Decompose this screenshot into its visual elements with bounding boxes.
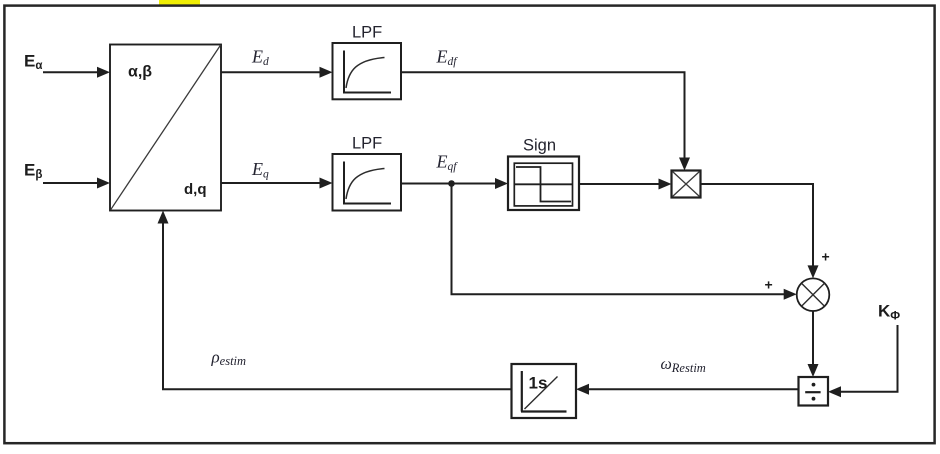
Sign block outer [508, 157, 579, 211]
wire summer to divider [812, 311, 814, 368]
Sign block inner [514, 163, 572, 206]
node E_qf [448, 180, 455, 187]
Sign icon step [514, 167, 572, 202]
svg-text:d,q: d,q [184, 181, 207, 198]
transform block alpha-beta to d-q [110, 45, 221, 211]
svg-text:α,β: α,β [128, 64, 152, 81]
wire E_alpha [43, 71, 99, 73]
LPF1 icon axes [343, 51, 391, 93]
multiplier box [672, 171, 701, 198]
divider box [799, 377, 829, 406]
wire E_q [221, 182, 322, 184]
wire E_d [221, 71, 322, 73]
wire K_phi [840, 325, 898, 392]
LPF2 icon axes [343, 162, 391, 204]
LPF1 box [333, 43, 402, 99]
integrator box [512, 364, 577, 418]
svg-text:+: + [765, 276, 773, 292]
transform block diagonal [111, 45, 221, 210]
svg-text:Sign: Sign [523, 136, 556, 154]
wire divider to integrator [588, 388, 799, 390]
integrator icon axes [521, 371, 567, 412]
svg-text:LPF: LPF [352, 135, 382, 153]
wire Sign to multiplier [579, 183, 661, 185]
LPF2 icon curve [346, 169, 385, 200]
yellow highlight [159, 0, 200, 6]
multiplier X [673, 172, 700, 197]
svg-text:1s: 1s [529, 374, 548, 393]
svg-text:+: + [822, 249, 830, 265]
summer X [802, 283, 825, 306]
divide symbol [812, 383, 816, 387]
LPF1 icon curve [346, 58, 385, 89]
LPF2 box [333, 154, 402, 211]
feedback wire rho [163, 222, 512, 390]
svg-text:LPF: LPF [352, 24, 382, 42]
wire E_df [401, 72, 685, 160]
integrator ramp [525, 377, 558, 410]
wire E_qf [401, 183, 497, 185]
branch wire E_qf to summer [452, 184, 786, 295]
summer circle [797, 278, 830, 311]
wire multiplier to summer [701, 184, 814, 267]
wire E_beta [43, 182, 99, 184]
